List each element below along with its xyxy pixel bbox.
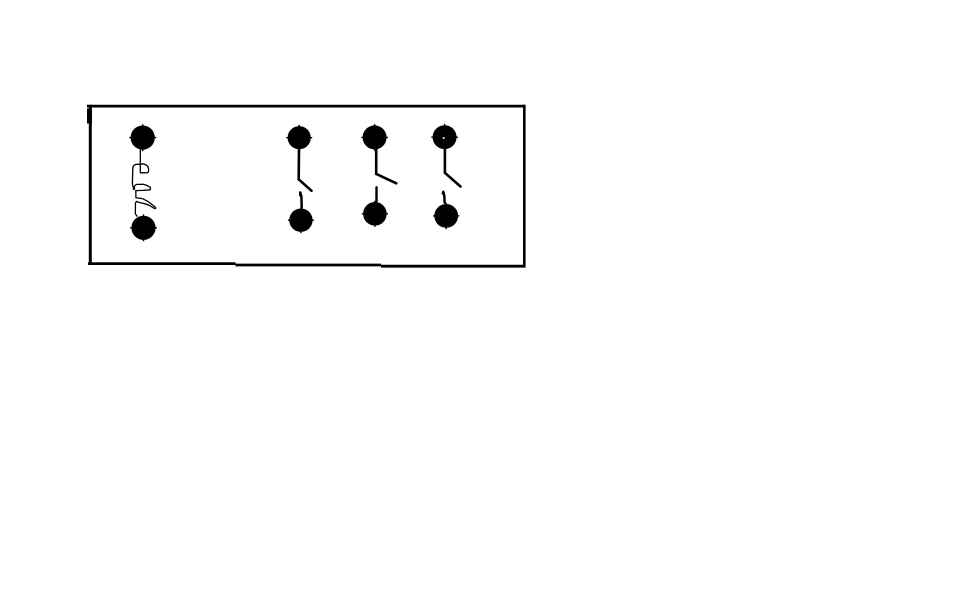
relay outline box: left edge (89, 105, 92, 265)
coil terminal A (top pin of relay coil) (129, 124, 156, 151)
switch SW2 lower stub (375, 187, 377, 201)
coil L1 (hand-scribbled winding) (132, 150, 155, 216)
switch SW1 lower stub (300, 192, 302, 207)
switch SW2 lever (open blade) (376, 149, 396, 183)
switch SW3 lever (open blade) (445, 149, 461, 186)
relay outline box: top edge (87, 105, 525, 108)
switch SW3 bottom contact (433, 203, 459, 229)
switch SW1 bottom contact (288, 207, 314, 233)
switch SW2 bottom contact (362, 201, 388, 227)
switch SW1 top contact (286, 125, 312, 151)
switch SW2 top contact (361, 124, 388, 151)
coil terminal B (bottom pin of relay coil) (130, 214, 157, 241)
pen blob on left edge at top-left corner (87, 109, 92, 124)
relay outline box: bottom edge (stepped hand-drawn segments) (88, 262, 236, 265)
relay outline box: right edge (523, 105, 526, 268)
switch SW3 lower stub (443, 192, 444, 203)
switch SW3 top contact (431, 124, 458, 151)
switch SW1 lever (open blade) (299, 150, 312, 191)
